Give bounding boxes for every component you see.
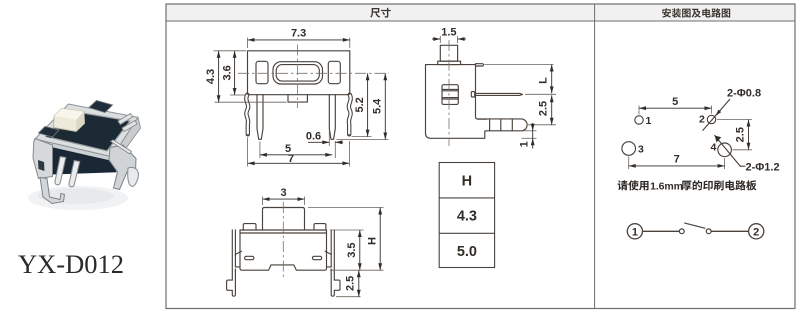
PCB hole 4 (large) xyxy=(711,142,732,157)
front view: top tabs xyxy=(243,224,326,230)
front view: left bracket with foot xyxy=(227,230,242,296)
svg-text:2.5: 2.5 xyxy=(538,101,550,116)
switch actuator arm xyxy=(684,223,705,228)
dimension H (total height) xyxy=(308,208,384,271)
side view: plunger stem xyxy=(438,45,461,64)
PCB hole 2 (small) xyxy=(699,114,716,126)
switch contact left xyxy=(679,229,684,234)
circuit terminal 2 xyxy=(749,224,764,239)
wire right xyxy=(711,230,749,232)
H value table xyxy=(439,163,494,268)
svg-text:7.3: 7.3 xyxy=(291,28,306,40)
dimension 5 (hole pitch top) xyxy=(639,96,712,115)
dimension 2.5 (bracket below base) xyxy=(336,270,361,297)
product photo: tact switch illustration xyxy=(28,101,141,211)
top view: right outer bracket leg (wavy) xyxy=(349,95,351,135)
switch contact right xyxy=(706,229,711,234)
svg-text:1.5: 1.5 xyxy=(441,27,456,39)
PCB hole 3 (large) xyxy=(622,142,644,156)
top view: switch body outline xyxy=(248,51,350,102)
svg-text:2-Φ1.2: 2-Φ1.2 xyxy=(746,162,780,174)
side view: internal contact block xyxy=(442,85,458,105)
side view: straight terminal pin (horizontal) xyxy=(471,92,522,97)
svg-text:5.4: 5.4 xyxy=(372,98,384,114)
dimension 7 (hole pitch bottom) xyxy=(629,154,725,170)
header title 安装图及电路图 (Mounting & circuit diagram) xyxy=(662,8,730,17)
top view: left inner slot xyxy=(256,61,268,83)
dimension 4.3 (left outer height) xyxy=(205,51,286,102)
top view: right terminal pin xyxy=(329,95,335,140)
side view: vertical centerline xyxy=(448,40,450,146)
svg-text:7: 7 xyxy=(288,153,294,165)
side view: top-right mounting tab xyxy=(476,64,484,66)
dimension 2.5 (row pitch) xyxy=(717,120,752,150)
dimension 5.2 (right height to bracket tip) xyxy=(352,73,372,136)
wire left xyxy=(643,230,680,232)
callout 2-Φ1.2 leader xyxy=(715,136,780,174)
top view: right inner slot xyxy=(328,61,340,83)
dimension 0.6 (pin width) xyxy=(306,131,343,159)
svg-text:3.5: 3.5 xyxy=(346,242,358,257)
svg-text:1.6mm: 1.6mm xyxy=(650,180,683,192)
dimension 5 (pin pitch) xyxy=(260,142,332,159)
circuit terminal 1 xyxy=(627,224,642,239)
front view: vertical centerline xyxy=(282,202,284,280)
svg-text:3.6: 3.6 xyxy=(221,65,233,80)
header title 尺寸 (Dimensions) xyxy=(370,8,391,18)
note: use 1.6mm thick PCB xyxy=(618,180,757,192)
callout 2-Φ0.8 leader xyxy=(703,88,761,131)
svg-text:2: 2 xyxy=(753,226,759,238)
svg-text:4.3: 4.3 xyxy=(457,209,477,225)
svg-text:H: H xyxy=(462,173,472,189)
svg-text:4.3: 4.3 xyxy=(205,69,217,84)
top view: horizontal centerline xyxy=(238,72,389,74)
top view: left terminal pin xyxy=(257,95,263,140)
svg-text:3: 3 xyxy=(280,187,286,199)
svg-text:YX-D012: YX-D012 xyxy=(18,249,124,279)
svg-text:2.5: 2.5 xyxy=(344,276,356,291)
dimension L (body top to pin) xyxy=(485,65,554,94)
svg-text:2-Φ0.8: 2-Φ0.8 xyxy=(727,88,761,100)
svg-text:H: H xyxy=(366,237,378,245)
svg-text:5: 5 xyxy=(672,96,678,108)
dimension 7 (bracket pitch) xyxy=(248,138,350,167)
dimension 5.4 (right height to pin tip) xyxy=(337,73,389,139)
top view: left outer bracket leg (wavy) xyxy=(246,95,248,135)
dimension 1 (bent pin bottom to base) xyxy=(519,123,537,149)
front view: body outline xyxy=(240,230,327,270)
svg-text:4: 4 xyxy=(711,142,717,154)
front view: right bracket with foot xyxy=(325,230,340,296)
svg-text:L: L xyxy=(537,77,549,84)
svg-text:5.0: 5.0 xyxy=(457,244,477,260)
svg-text:2.5: 2.5 xyxy=(735,127,747,142)
front view: push button xyxy=(263,208,305,231)
dimension 3.5 (body height) xyxy=(330,230,364,270)
PCB hole 1 (small) xyxy=(635,115,652,127)
top view: vertical centerline xyxy=(297,45,299,109)
model label YX-D012 xyxy=(18,249,124,279)
top view: center button (double outline) xyxy=(273,62,323,84)
dimension 2.5 (pin to bent pin center) xyxy=(525,94,556,125)
svg-text:3: 3 xyxy=(638,144,644,156)
dimension 3 (button width) xyxy=(263,187,305,205)
side view: bent terminal pins block xyxy=(477,119,527,131)
front view: side slots xyxy=(245,256,322,259)
svg-text:1: 1 xyxy=(646,115,652,127)
dimension 1.5 (stem width) xyxy=(432,27,466,44)
dimension 7.3 (top width) xyxy=(248,28,350,49)
svg-text:7: 7 xyxy=(674,154,680,166)
svg-text:1: 1 xyxy=(519,141,531,147)
svg-text:0.6: 0.6 xyxy=(306,131,321,143)
svg-text:5.2: 5.2 xyxy=(354,97,366,112)
svg-text:1: 1 xyxy=(632,226,638,238)
side view: main body xyxy=(426,65,487,139)
svg-text:2: 2 xyxy=(699,114,705,126)
spec table frame xyxy=(166,4,795,309)
dimension 3.6 (left inner height) xyxy=(221,51,246,95)
